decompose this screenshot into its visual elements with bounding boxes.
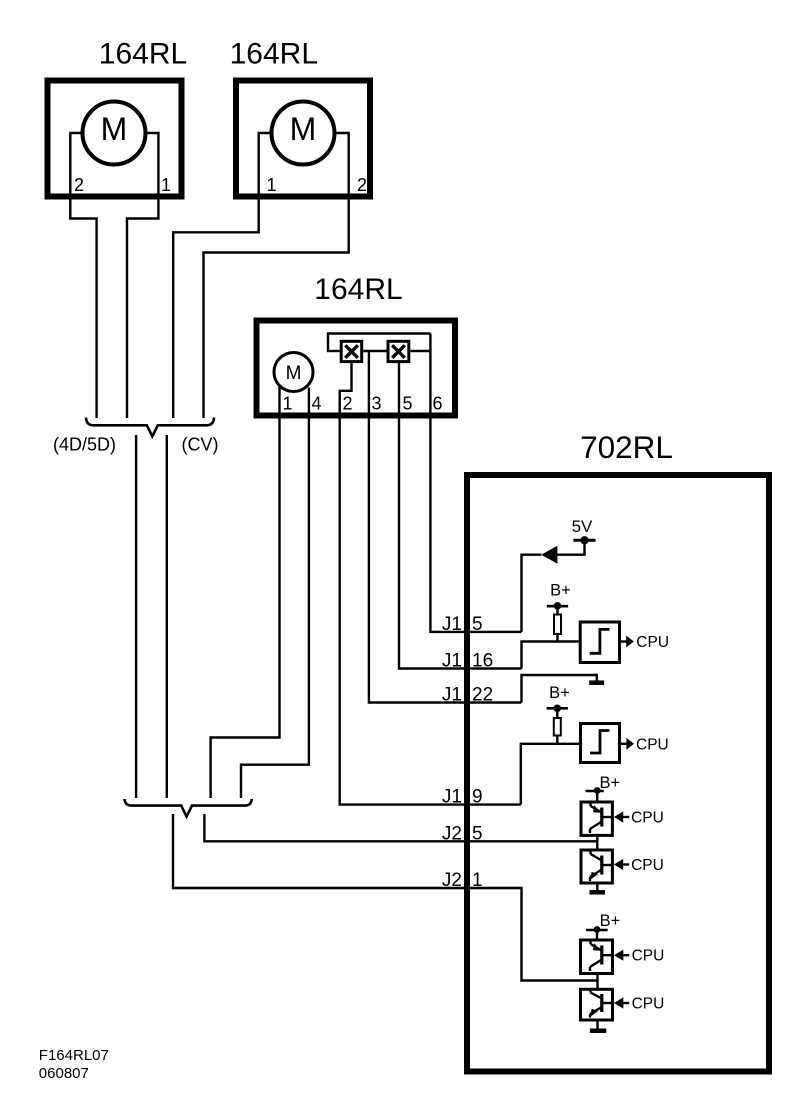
svg-text:22: 22	[472, 685, 493, 706]
svg-text:M: M	[101, 111, 128, 147]
motor M (right unit)	[272, 102, 335, 165]
svg-text:J2: J2	[442, 870, 462, 891]
wire: resistor R2 to input line	[556, 736, 558, 745]
wire: pin 3 to J1 22	[369, 351, 522, 703]
wire: 5V node to diode arrow	[557, 540, 585, 554]
hall sensor (right)	[388, 341, 409, 361]
wire: left motor pin 2 down to harness brace	[70, 133, 96, 418]
schmitt trigger U1	[580, 622, 619, 663]
wire: right hall sensor pin 5 to J1 16	[399, 363, 522, 669]
svg-text:M: M	[286, 363, 302, 384]
harness variant brace (upper)	[86, 418, 214, 437]
svg-text:702RL: 702RL	[580, 429, 673, 465]
transistor Q2 (low side driver)	[581, 850, 612, 883]
ground (driver pair 2)	[590, 1028, 606, 1033]
svg-text:2: 2	[343, 394, 353, 414]
wire: B+ node to resistor R1	[556, 606, 558, 615]
wire: J1 22 to ground	[522, 675, 597, 703]
CPU output arrow (U1)	[621, 636, 634, 648]
svg-text:6: 6	[433, 394, 443, 414]
hall sensor (left)	[341, 341, 362, 361]
B+ supply node (driver pair 1)	[586, 787, 604, 794]
svg-text:CPU: CPU	[632, 948, 665, 965]
svg-text:5V: 5V	[572, 517, 593, 536]
wire: sensor supply bracket	[328, 334, 430, 352]
svg-text:5: 5	[403, 394, 413, 414]
wire: harness lead A down	[135, 435, 137, 798]
svg-text:164RL: 164RL	[230, 38, 318, 71]
ground (driver pair 1)	[590, 890, 606, 895]
wire: right motor pin 2 down to harness brace	[204, 133, 349, 418]
wire: diode arrow to J1 5 line	[522, 555, 542, 632]
wire: sensor bus segment center	[363, 350, 386, 352]
5V supply node	[573, 536, 595, 544]
svg-text:CPU: CPU	[632, 996, 665, 1013]
svg-text:B+: B+	[599, 774, 620, 792]
svg-text:2: 2	[357, 175, 367, 195]
wire: sensor bus segment right	[410, 350, 430, 352]
control module box 702RL	[467, 475, 769, 1072]
schmitt trigger U2	[581, 724, 620, 763]
motor unit box 164RL (right)	[236, 81, 370, 197]
svg-text:F164RL07: F164RL07	[39, 1047, 109, 1064]
transistor Q4 (low side driver)	[581, 989, 613, 1020]
B+ supply node (driver pair 2)	[586, 926, 608, 933]
ground (J1 22)	[589, 680, 604, 685]
svg-text:CPU: CPU	[631, 810, 664, 827]
wire: resistor R1 to input line	[556, 634, 558, 643]
resistor R1 (pull-up)	[554, 615, 561, 635]
wire: left motor pin 1 down to harness brace	[127, 133, 158, 418]
svg-text:J1: J1	[442, 685, 462, 706]
sensor/motor unit box 164RL (middle)	[257, 321, 456, 416]
svg-text:J1: J1	[442, 787, 462, 808]
wire: harness to J2 5	[204, 814, 597, 841]
svg-text:16: 16	[472, 651, 493, 672]
svg-text:B+: B+	[550, 582, 571, 600]
motor M (left unit)	[83, 102, 146, 165]
wire: pin 4 to lower brace	[241, 388, 309, 799]
transistor Q1 (high side driver)	[581, 802, 612, 835]
svg-text:5: 5	[472, 823, 483, 844]
svg-text:1: 1	[267, 175, 277, 195]
diode arrow (5V feed, pointing left)	[541, 546, 557, 564]
wire: B+ to transistor Q3	[596, 930, 598, 940]
svg-text:CPU: CPU	[631, 857, 664, 874]
resistor R2 (pull-up)	[554, 718, 561, 736]
svg-text:M: M	[290, 111, 317, 147]
wire: J1 16 up to schmitt trigger 1 input	[522, 642, 579, 669]
svg-text:J1: J1	[442, 614, 462, 635]
wire: J1 9 up to schmitt trigger 2 input	[521, 744, 579, 805]
wire: right motor pin 1 down to harness brace	[173, 133, 271, 418]
svg-text:9: 9	[472, 787, 483, 808]
svg-text:(CV): (CV)	[182, 435, 219, 455]
transistor Q3 (high side driver)	[581, 940, 613, 974]
CPU input arrow (Q3)	[614, 950, 629, 961]
svg-text:060807: 060807	[39, 1065, 89, 1082]
CPU input arrow (Q4)	[614, 997, 629, 1008]
svg-text:B+: B+	[600, 912, 621, 930]
wire: Q2 to ground bar	[596, 883, 598, 891]
svg-text:(4D/5D): (4D/5D)	[53, 435, 116, 455]
wire: Q1 to Q2 junction	[596, 835, 598, 850]
svg-text:4: 4	[312, 394, 322, 414]
wire: B+ to transistor Q1	[596, 791, 598, 802]
motor M (middle unit)	[274, 353, 313, 392]
svg-text:1: 1	[472, 870, 483, 891]
svg-text:3: 3	[372, 394, 382, 414]
CPU input arrow (Q2)	[614, 859, 629, 870]
harness variant brace (lower)	[125, 799, 252, 817]
wire: pin 1 to lower brace	[211, 387, 280, 799]
motor unit box 164RL (left)	[48, 81, 182, 197]
svg-text:CPU: CPU	[636, 736, 669, 753]
wire: harness lead B down	[166, 435, 168, 798]
CPU output arrow (U2)	[621, 738, 634, 750]
svg-text:2: 2	[74, 175, 84, 195]
svg-text:J2: J2	[442, 823, 462, 844]
svg-text:164RL: 164RL	[314, 273, 402, 306]
svg-text:164RL: 164RL	[99, 38, 187, 71]
svg-text:1: 1	[161, 175, 171, 195]
B+ supply node (pull-up 2)	[547, 705, 568, 713]
wire: Q3 to Q4 junction	[596, 974, 598, 990]
wire: left hall sensor pin 2 to J1 9	[340, 363, 521, 805]
svg-text:CPU: CPU	[636, 634, 669, 651]
CPU input arrow (Q1)	[614, 811, 629, 822]
svg-text:1: 1	[283, 394, 293, 414]
svg-text:J1: J1	[442, 651, 462, 672]
B+ supply node (pull-up 1)	[547, 602, 568, 610]
wire: Q4 to ground bar	[596, 1020, 598, 1029]
wire: harness to J2 1	[173, 814, 598, 981]
svg-text:B+: B+	[549, 684, 570, 702]
wire: sensor bus segment left	[327, 350, 340, 352]
svg-text:5: 5	[472, 614, 483, 635]
wire: B+ node to resistor R2	[556, 708, 558, 718]
wire: pin 6 to J1 5	[430, 334, 521, 632]
